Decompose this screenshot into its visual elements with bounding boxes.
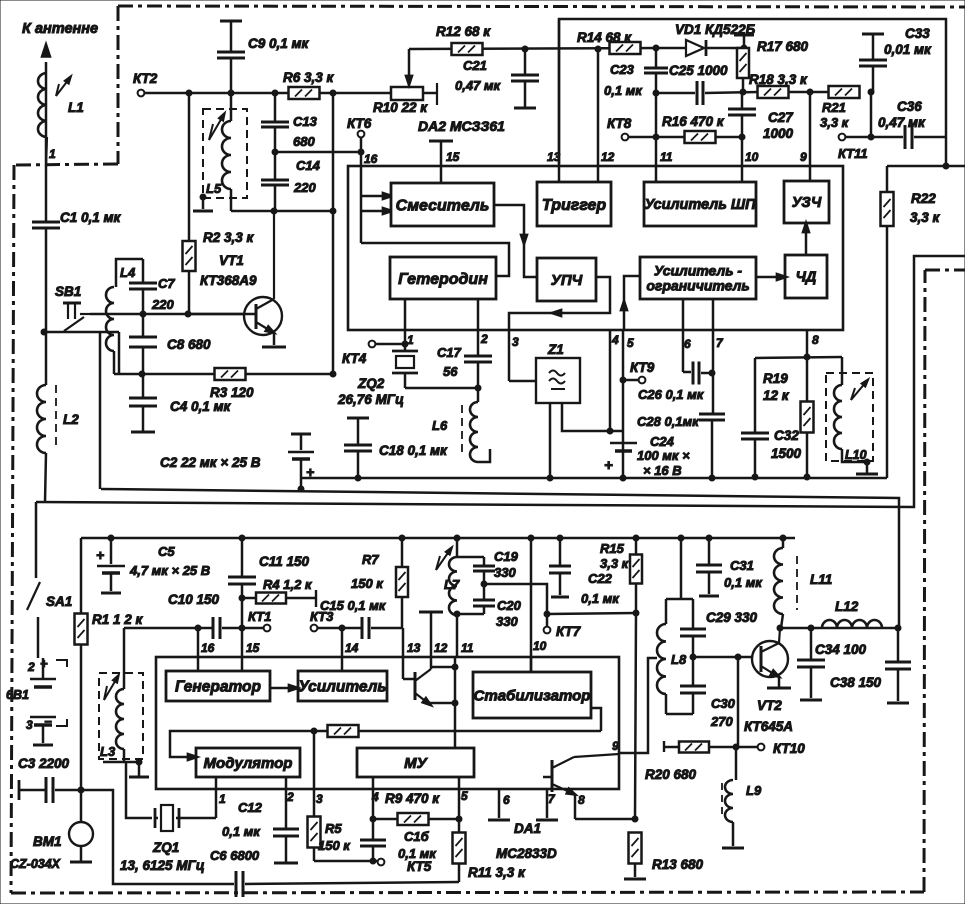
capacitor C36 label <box>878 99 926 130</box>
wire SB1 base wire <box>90 313 256 316</box>
capacitor C2 label <box>160 455 261 470</box>
node junction C18 rail <box>355 475 361 481</box>
inductor L2 label <box>63 412 79 427</box>
node pin 11 label <box>660 150 673 164</box>
capacitor C38 label <box>830 675 882 690</box>
inductor L5 ground <box>193 194 213 211</box>
wire R15 drop bus <box>635 613 636 819</box>
block Триггер <box>537 182 611 226</box>
node junction C21 <box>522 46 528 52</box>
node junction C23 bottom <box>653 90 659 96</box>
wire C33 KT11 link <box>870 92 873 137</box>
node pin 16 label b <box>201 641 215 655</box>
wire osc to amp arrow <box>270 684 301 692</box>
block Модулятор <box>196 748 300 777</box>
capacitor C15 label <box>320 598 387 613</box>
block Гетеродин <box>390 257 496 299</box>
resistor R14 <box>610 42 641 54</box>
wire C36 to right bus <box>914 136 946 139</box>
wire R22 bus <box>886 166 889 478</box>
resistor R6 label <box>283 70 335 85</box>
node junction KT9 <box>620 377 626 383</box>
svg-text:1: 1 <box>219 792 226 806</box>
wire L3 to ZQ1 <box>126 762 152 818</box>
inductor L6 label <box>432 418 448 433</box>
svg-text:R3 120: R3 120 <box>210 385 254 400</box>
svg-text:VT2: VT2 <box>757 698 782 713</box>
wire oscillator pin2 stem <box>477 299 480 330</box>
resistor R18 <box>758 86 789 98</box>
wire pin2 C12 stem <box>285 777 288 828</box>
block ЧД <box>785 255 827 298</box>
svg-text:С2 22 мк × 25 В: С2 22 мк × 25 В <box>160 455 261 470</box>
node junction KT10 <box>733 744 739 750</box>
svg-text:+: + <box>306 464 314 480</box>
inductor L6 <box>462 388 490 462</box>
svg-text:8: 8 <box>812 333 819 347</box>
svg-text:R20 680: R20 680 <box>645 767 697 782</box>
svg-text:Усилитель ШП: Усилитель ШП <box>644 197 756 213</box>
svg-text:L9: L9 <box>746 783 762 798</box>
wire KT1 line <box>124 627 213 630</box>
resistor R7 label <box>351 552 384 591</box>
node junction R4 <box>239 595 245 601</box>
svg-text:15: 15 <box>246 641 260 655</box>
wire KT10 column <box>737 657 740 747</box>
wire pin10 feed osc <box>528 535 534 672</box>
svg-text:С4 0,1 мк: С4 0,1 мк <box>170 399 232 414</box>
resistor R4 <box>242 590 316 607</box>
svg-text:С33: С33 <box>905 26 930 41</box>
svg-text:ЧД: ЧД <box>796 270 817 286</box>
capacitor C28 label <box>637 414 700 429</box>
wire dash-dot border right entry <box>925 269 965 272</box>
inductor L7 label <box>444 577 460 592</box>
node pin 14 label b <box>345 641 359 655</box>
node junction C7 base <box>140 311 146 317</box>
svg-text:Z1: Z1 <box>547 342 564 357</box>
node junction R19 rail <box>804 474 810 480</box>
svg-text:С18 0,1 мк: С18 0,1 мк <box>379 443 448 458</box>
wire L8 top bar <box>666 598 693 601</box>
capacitor C14 <box>261 152 289 211</box>
capacitor C24 electrolytic <box>604 443 637 481</box>
wire C25 rail <box>656 92 695 95</box>
node KT3 label <box>310 609 334 624</box>
svg-text:6В1: 6В1 <box>6 688 29 702</box>
resistor R22 label <box>910 191 941 225</box>
svg-text:С25 1000: С25 1000 <box>669 63 728 78</box>
wire pin9 out <box>619 658 657 753</box>
svg-text:С21: С21 <box>463 58 487 73</box>
wire R12 rail <box>409 48 656 49</box>
svg-text:С3 2200: С3 2200 <box>18 756 70 771</box>
wire BM1 node to bottom bus <box>81 790 234 884</box>
svg-text:Стабилизатор: Стабилизатор <box>474 687 591 704</box>
svg-text:С14: С14 <box>296 158 321 173</box>
svg-text:R10 22 к: R10 22 к <box>373 100 428 115</box>
capacitor C7 <box>129 259 157 314</box>
node junction C13 top <box>272 90 278 96</box>
node KT10 label <box>773 741 805 756</box>
node pin 9 label b <box>612 739 619 753</box>
inductor L3 <box>104 628 124 762</box>
wire Z1 lead A <box>549 403 552 478</box>
capacitor C24 label <box>637 434 690 478</box>
svg-text:270: 270 <box>710 714 733 729</box>
node pin 16 label <box>364 152 378 166</box>
svg-text:Усилитель -: Усилитель - <box>654 263 743 279</box>
svg-text:Усилитель: Усилитель <box>298 679 386 696</box>
crystal ZQ2 label <box>337 376 404 407</box>
svg-text:1500: 1500 <box>771 446 802 461</box>
svg-text:КТ8: КТ8 <box>607 116 632 131</box>
inductor L4 label <box>120 265 136 280</box>
node junction SB1 <box>41 329 47 335</box>
wire pin8 to R13 <box>575 818 635 821</box>
svg-text:L1: L1 <box>68 100 84 115</box>
node pin 2 label b <box>286 790 294 804</box>
capacitor C36 <box>905 125 912 149</box>
svg-text:−: − <box>44 714 52 729</box>
wire RX vertical bus <box>332 93 335 374</box>
wire pin6 stub <box>488 789 510 820</box>
node pin 13 label b <box>407 641 421 655</box>
resistor R14 label <box>577 30 632 45</box>
svg-text:SA1: SA1 <box>46 594 72 609</box>
wire pin8 cross rail <box>755 357 842 358</box>
wire mixer output to УПЧ <box>494 205 537 277</box>
block МУ <box>357 748 474 777</box>
inductor L8 label <box>671 652 687 667</box>
svg-text:ZQ1: ZQ1 <box>152 840 179 855</box>
capacitor C25 label <box>669 63 728 78</box>
inductor L11 <box>774 535 797 628</box>
svg-text:12 к: 12 к <box>763 388 790 403</box>
node junction KT7 <box>544 611 550 617</box>
svg-text:ВМ1: ВМ1 <box>33 834 62 849</box>
resistor R15 <box>630 535 642 613</box>
resistor R11 label <box>468 865 526 880</box>
node pin 15 stem <box>429 141 453 183</box>
svg-text:R2 3,3 к: R2 3,3 к <box>203 230 255 245</box>
wire pin1 stem <box>215 777 218 789</box>
wire МУ pin5 stem <box>458 777 461 819</box>
block Усилитель ШП <box>644 182 756 226</box>
node pin 15 label <box>446 150 460 164</box>
svg-text:13, 6125 МГц: 13, 6125 МГц <box>120 858 205 873</box>
node junction R9 right <box>456 816 462 822</box>
wire top feed line <box>559 19 946 166</box>
svg-text:R17 680: R17 680 <box>757 39 809 54</box>
svg-text:12: 12 <box>434 641 448 655</box>
svg-text:С1б: С1б <box>404 829 430 844</box>
wire tap to R15 <box>547 613 636 614</box>
block Усилитель-ограничитель <box>640 257 756 299</box>
svg-text:С5: С5 <box>158 544 175 559</box>
node pin 6 label b <box>503 793 510 807</box>
svg-text:1000: 1000 <box>763 126 794 141</box>
node junction C26 pin7 <box>709 370 715 376</box>
wire collector bus <box>780 627 898 630</box>
svg-text:3,3 к: 3,3 к <box>600 556 630 571</box>
svg-text:С32: С32 <box>774 428 799 443</box>
potentiometer R10 label <box>373 100 428 115</box>
svg-text:R11 3,3 к: R11 3,3 к <box>468 865 526 880</box>
inductor L5 <box>209 94 231 211</box>
capacitor C26 <box>683 330 711 385</box>
svg-text:R1 1 2 к: R1 1 2 к <box>92 612 144 627</box>
capacitor C14 label <box>293 158 321 195</box>
wire divider line D1 <box>36 256 965 507</box>
wire TX rail <box>81 537 795 540</box>
capacitor C13 <box>261 93 289 152</box>
svg-text:L5: L5 <box>206 181 222 196</box>
transistor Q inside DA1 a <box>403 657 458 710</box>
capacitor C17 <box>464 330 492 388</box>
svg-text:14: 14 <box>345 641 359 655</box>
svg-text:Модулятор: Модулятор <box>204 755 293 772</box>
node KT6 label <box>347 116 372 131</box>
crystal ZQ1 <box>155 805 216 831</box>
block УПЧ <box>537 258 596 301</box>
node junction C33 bottom <box>868 89 874 95</box>
svg-text:R6 3,3 к: R6 3,3 к <box>283 70 335 85</box>
svg-text:УПЧ: УПЧ <box>551 272 583 289</box>
capacitor C21 label <box>455 58 502 93</box>
svg-text:С30: С30 <box>711 696 736 711</box>
svg-text:С24: С24 <box>650 434 675 449</box>
capacitor C25 <box>697 81 703 105</box>
node junction Z1 rail <box>547 475 553 481</box>
node mixer input arrow 2 <box>361 207 395 215</box>
svg-text:0,1 мк: 0,1 мк <box>724 575 763 590</box>
inductor L4 <box>106 259 143 374</box>
resistor R7 <box>396 535 408 628</box>
wire KT2 rail <box>144 92 391 95</box>
wire limiter input <box>620 276 640 330</box>
svg-text:С9 0,1 мк: С9 0,1 мк <box>248 36 310 51</box>
capacitor C4 label <box>170 399 232 414</box>
node pin 5 label b <box>461 789 468 803</box>
capacitor C3 <box>19 777 81 803</box>
svg-text:4: 4 <box>611 333 619 347</box>
inductor L11 label <box>810 572 832 587</box>
node KT3 terminal <box>311 625 318 632</box>
svg-text:220: 220 <box>293 180 316 195</box>
resistor R11 <box>453 819 466 882</box>
svg-text:R13 680: R13 680 <box>652 857 704 872</box>
svg-text:Генератор: Генератор <box>175 679 261 696</box>
capacitor C7 label <box>151 276 175 312</box>
svg-text:К антенне: К антенне <box>22 21 98 37</box>
wire dash-dot enclosure border top <box>118 6 965 7</box>
capacitor C23 <box>644 48 668 93</box>
node junction pin7 rail <box>709 475 715 481</box>
wire stab top stem <box>530 657 533 672</box>
svg-text:0,47 мк: 0,47 мк <box>878 115 926 130</box>
svg-text:2: 2 <box>480 332 488 346</box>
capacitor C33 <box>859 34 887 92</box>
node junction C32 rail <box>752 474 758 480</box>
wire pin11 feed osc <box>456 614 459 657</box>
node KT5 label <box>407 859 432 874</box>
svg-text:+: + <box>96 547 104 563</box>
node pin 12 label b <box>434 641 448 655</box>
capacitor C38 <box>885 628 911 703</box>
capacitor C4 <box>129 374 157 432</box>
wire limiter to ЧД <box>756 273 789 281</box>
svg-text:МС2833D: МС2833D <box>496 846 557 861</box>
wire pin13 stem <box>402 628 405 657</box>
inductor L2 <box>37 332 56 502</box>
capacitor C16 <box>360 819 386 861</box>
wire dash-dot enclosure border left <box>11 165 14 893</box>
svg-text:С23: С23 <box>610 62 635 77</box>
wire pin9 feed <box>809 92 812 181</box>
capacitor C1 label <box>60 210 122 225</box>
svg-text:КТ10: КТ10 <box>773 741 805 756</box>
switch SA1 <box>27 502 40 658</box>
node KT7 label <box>556 624 582 639</box>
microphone BM1 <box>69 790 93 862</box>
node junction R6 right <box>330 90 336 96</box>
block Смеситель <box>391 183 494 226</box>
svg-text:L12: L12 <box>835 599 859 614</box>
svg-text:С19: С19 <box>494 549 519 564</box>
resistor R9 <box>373 813 459 825</box>
svg-text:220: 220 <box>151 297 174 312</box>
svg-text:С13: С13 <box>293 114 318 129</box>
node KT9 terminal <box>626 377 645 384</box>
wire МУ pin4 stem <box>372 777 375 819</box>
svg-text:0,47 мк: 0,47 мк <box>455 78 502 93</box>
wire C31 feed <box>678 535 684 598</box>
node KT11 label <box>838 146 868 161</box>
resistor R20 label <box>645 767 697 782</box>
wire C25 to R18 <box>705 92 758 93</box>
resistor R1 label <box>92 612 144 627</box>
wire KT11 rail <box>845 136 903 139</box>
wire L3 bottom link <box>103 761 139 764</box>
resistor R16 <box>685 131 716 143</box>
node junction pin16 <box>358 149 364 155</box>
node 1 pin label <box>49 147 56 161</box>
wire dash-dot enclosure border left upper <box>117 6 120 164</box>
svg-text:0,1 мк: 0,1 мк <box>222 824 261 839</box>
svg-text:R7: R7 <box>362 552 379 567</box>
svg-text:26,76 МГц: 26,76 МГц <box>337 392 404 407</box>
wire pin3 to Z1 <box>509 330 536 381</box>
wire pin16 stem <box>197 628 200 671</box>
capacitor C19 label <box>494 549 519 580</box>
transistor VT2 <box>752 628 791 688</box>
filter Z1 label <box>547 342 564 357</box>
svg-text:+: + <box>604 457 613 474</box>
node junction C2 <box>298 486 304 492</box>
wire dash-dot enclosure border step <box>14 164 118 165</box>
svg-text:КТ368А9: КТ368А9 <box>200 273 257 288</box>
node junction pin9 top <box>807 89 813 95</box>
resistor R9 label <box>385 791 440 806</box>
svg-text:КТ1: КТ1 <box>248 609 271 624</box>
resistor R17 label <box>757 39 809 54</box>
capacitor C18 label <box>379 443 448 458</box>
wire VT2 base wire <box>693 656 761 659</box>
block УЗЧ <box>784 181 829 223</box>
svg-text:С38 150: С38 150 <box>830 675 882 690</box>
svg-text:150 к: 150 к <box>318 838 351 853</box>
svg-text:R14 68 к: R14 68 к <box>577 30 632 45</box>
node KT5 terminal <box>378 859 385 866</box>
svg-text:С29 330: С29 330 <box>706 610 758 625</box>
svg-text:Триггер: Триггер <box>542 197 607 214</box>
svg-text:3: 3 <box>26 718 33 732</box>
capacitor C28 on pin7 <box>699 330 725 478</box>
svg-text:С8 680: С8 680 <box>167 337 211 352</box>
resistor R5 label <box>318 821 351 853</box>
capacitor C22 <box>549 535 571 597</box>
wire VT1 collector to C14 node <box>231 210 333 213</box>
wire pin11 through <box>454 657 457 748</box>
resistor R16 label <box>662 114 725 129</box>
node junction pin4 <box>607 428 613 434</box>
svg-text:КТ11: КТ11 <box>838 146 868 161</box>
svg-text:680: 680 <box>293 134 315 149</box>
svg-text:R12 68 к: R12 68 к <box>436 24 491 39</box>
node junction C27 bottom <box>739 134 745 140</box>
wire pin5 feed <box>622 330 625 478</box>
svg-text:L8: L8 <box>671 652 687 667</box>
capacitor C2 electrolytic <box>288 434 314 489</box>
resistor R15 label <box>600 541 630 571</box>
wire KT4 to pin1 <box>375 343 405 346</box>
capacitor C13 label <box>293 114 318 149</box>
node junction C13 C14 <box>272 149 278 155</box>
node pin 2 label <box>480 332 488 346</box>
node junction KT8 <box>653 134 659 140</box>
node KT4 label <box>342 351 367 366</box>
svg-text:R22: R22 <box>911 191 936 206</box>
wire DA2 ground rail <box>301 477 887 480</box>
potentiometer R10 <box>391 49 437 105</box>
wire pin13 feed <box>558 19 561 182</box>
node KT10 terminal <box>739 744 764 751</box>
block Стабилизатор <box>473 672 591 718</box>
svg-text:9: 9 <box>612 739 619 753</box>
svg-text:9: 9 <box>800 150 807 164</box>
wire Z1 lead B <box>562 403 623 431</box>
svg-text:Гетеродин: Гетеродин <box>398 271 488 288</box>
inductor L10 ground <box>856 459 878 474</box>
svg-text:С6 6800: С6 6800 <box>210 848 260 863</box>
node KT8 label <box>607 116 632 131</box>
svg-text:0,1 мк: 0,1 мк <box>581 591 620 606</box>
capacitor C5 electrolytic <box>96 535 125 593</box>
svg-text:L2: L2 <box>63 412 79 427</box>
resistor R21 <box>829 86 860 98</box>
svg-text:5: 5 <box>461 789 468 803</box>
svg-text:+: + <box>40 656 48 671</box>
wire KT5 link <box>314 860 377 863</box>
wire L7 bottom link <box>457 613 484 616</box>
node KT2 terminal <box>138 90 145 97</box>
wire pin4 feed <box>609 330 612 431</box>
svg-text:0,01 мк: 0,01 мк <box>884 42 932 57</box>
capacitor C11 <box>228 535 256 671</box>
capacitor C5 label <box>129 544 210 578</box>
svg-text:R18 3,3 к: R18 3,3 к <box>749 72 808 87</box>
